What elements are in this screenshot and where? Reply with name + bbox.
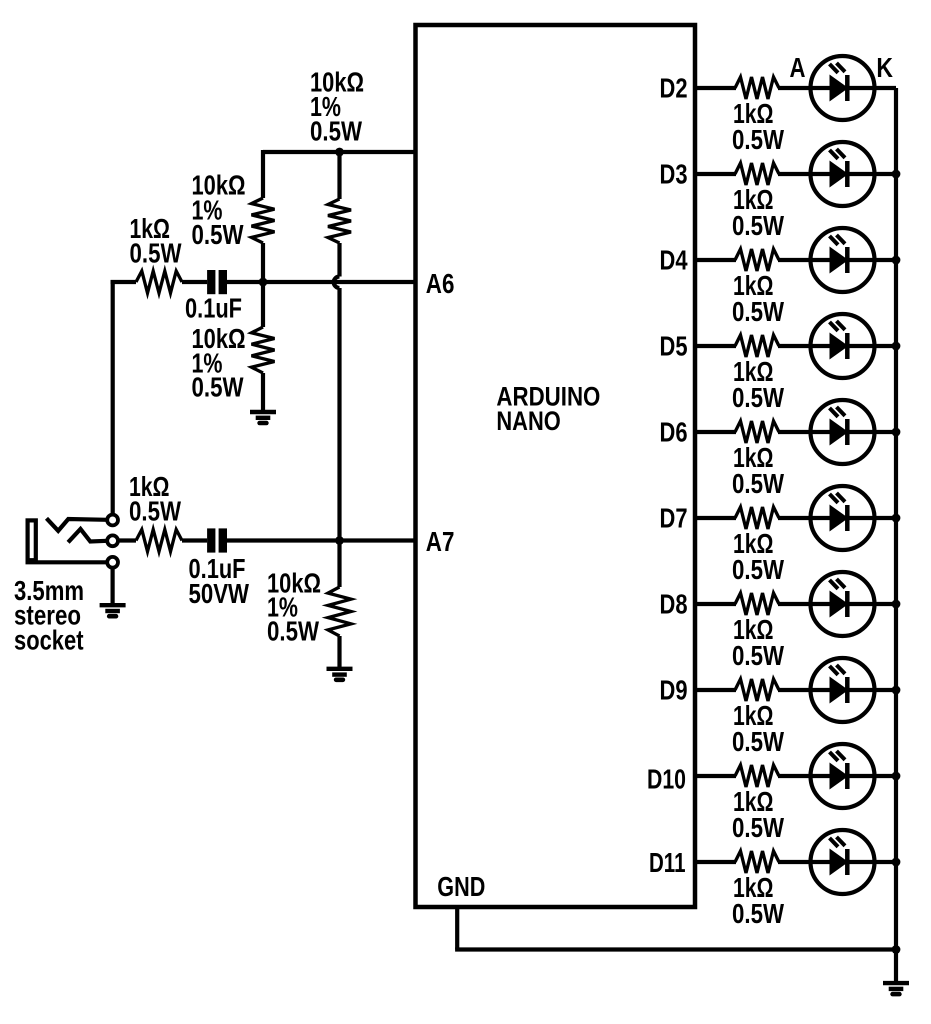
label R below-A6 10k	[192, 323, 246, 403]
wire hop over A6 line	[334, 277, 340, 289]
LED D2 cathode bar	[845, 75, 850, 101]
wire vertical x339 upper	[337, 150, 341, 199]
label resistor D11 1k 0.5W	[732, 872, 784, 929]
LED D6 cathode bar	[845, 419, 850, 445]
LED D11 lamp circle	[811, 830, 875, 894]
wire D7 row	[695, 516, 736, 520]
node junction rail D11	[892, 858, 901, 867]
ground socket sleeve	[100, 605, 126, 616]
svg-text:D11: D11	[649, 847, 686, 878]
svg-text:0.5W: 0.5W	[732, 726, 784, 757]
label resistor D6 1k 0.5W	[732, 442, 784, 499]
resistor 1k A7	[136, 530, 182, 552]
label R top 10k	[310, 67, 364, 147]
connector J1 3.5mm stereo socket body	[28, 520, 36, 560]
resistor 1k D10	[735, 765, 779, 787]
svg-text:A: A	[790, 52, 806, 83]
LED row D7	[660, 486, 901, 585]
wire vertical x339 hop to A7 junction	[337, 288, 341, 541]
wire x263 below A6	[261, 282, 265, 327]
svg-text:0.5W: 0.5W	[310, 116, 362, 147]
wire D8 row	[695, 602, 736, 606]
LED row D6	[660, 400, 901, 499]
label 3.5mm stereo socket	[14, 575, 84, 656]
label ARDUINO NANO	[496, 382, 600, 436]
svg-text:D3: D3	[660, 159, 688, 190]
node junction rail D10	[892, 772, 901, 781]
svg-text:0.5W: 0.5W	[732, 898, 784, 929]
LED row D11	[649, 830, 900, 929]
wire D3 row	[695, 172, 736, 176]
label resistor D10 1k 0.5W	[732, 786, 784, 843]
socket terminal tip	[107, 515, 118, 526]
LED D8 triangle anode	[830, 592, 848, 617]
LED D7 shine marks	[830, 493, 846, 503]
resistor 1k D9	[735, 679, 779, 701]
resistor 1k D11	[735, 851, 779, 873]
LED D7 triangle anode	[830, 506, 848, 531]
svg-text:0.5W: 0.5W	[732, 640, 784, 671]
LED D4 cathode bar	[845, 247, 850, 273]
LED D4 triangle anode	[830, 248, 848, 273]
capacitor 0.1uF 50VW (A7)	[207, 528, 227, 552]
socket terminal sleeve	[107, 557, 118, 568]
svg-text:GND: GND	[437, 871, 485, 902]
wire to ground x263	[261, 373, 265, 410]
LED D4 lamp circle	[811, 228, 875, 292]
svg-text:0.5W: 0.5W	[732, 468, 784, 499]
svg-text:D2: D2	[660, 73, 688, 104]
node junction top wire x=339.5	[335, 148, 344, 157]
label resistor D8 1k 0.5W	[732, 614, 784, 671]
svg-text:0.5W: 0.5W	[192, 372, 244, 403]
LED D6 shine marks	[830, 407, 846, 417]
resistor 10k upper-left	[252, 198, 275, 243]
ground below A6 divider	[250, 412, 276, 423]
wire D5 row	[695, 344, 736, 348]
LED D6 triangle anode	[830, 420, 848, 445]
LED row D5	[660, 314, 901, 413]
wire vertical x339 down to hop	[337, 243, 341, 277]
LED D2 shine marks	[830, 63, 846, 73]
node junction rail D4	[892, 256, 901, 265]
wire bottom to rail	[455, 947, 896, 951]
wire A7 resistor to cap	[182, 538, 207, 542]
svg-text:0.1uF: 0.1uF	[185, 293, 242, 324]
svg-text:0.5W: 0.5W	[732, 296, 784, 327]
svg-text:D10: D10	[647, 764, 686, 795]
resistor 1k D7	[735, 507, 779, 529]
wire cathode rail	[894, 88, 898, 981]
LED D6 lamp circle	[811, 400, 875, 464]
svg-text:50VW: 50VW	[189, 578, 250, 609]
svg-text:0.5W: 0.5W	[192, 219, 244, 250]
LED D5 shine marks	[830, 321, 846, 331]
wire vertical x263 to A6	[261, 243, 265, 282]
LED D2 lamp circle	[811, 56, 875, 120]
wire A6 left segment	[111, 280, 115, 282]
wire top rail to box	[263, 150, 416, 154]
LED D10 shine marks	[830, 751, 846, 761]
node junction rail D7	[892, 514, 901, 523]
socket terminal ring	[107, 535, 118, 546]
svg-text:NANO: NANO	[496, 406, 560, 436]
svg-text:A7: A7	[426, 526, 455, 557]
wire vertical x263 upper	[261, 150, 265, 198]
LED D3 shine marks	[830, 149, 846, 159]
socket tip contact	[47, 518, 108, 531]
label R series 1k (A7)	[129, 471, 181, 527]
wire A7 from socket ring	[117, 538, 136, 542]
label resistor D3 1k 0.5W	[732, 184, 784, 241]
wire x339 below A7	[337, 541, 341, 588]
label resistor D9 1k 0.5W	[732, 700, 784, 757]
Arduino Nano box U1	[416, 25, 696, 907]
wire A7 cap to box	[227, 538, 416, 542]
svg-text:0.5W: 0.5W	[732, 382, 784, 413]
LED row D4	[660, 228, 901, 327]
resistor 1k D4	[735, 249, 779, 271]
wire D4 row	[695, 258, 736, 262]
LED D8 lamp circle	[811, 572, 875, 636]
LED D11 cathode bar	[845, 849, 850, 875]
LED row D9	[660, 658, 901, 757]
wire A6 resistor to cap	[182, 280, 207, 284]
LED D9 triangle anode	[830, 678, 848, 703]
LED row D3	[660, 142, 901, 241]
wire A6 down to socket tip	[111, 282, 115, 515]
LED D7 cathode bar	[845, 505, 850, 531]
wire sleeve to ground	[110, 568, 114, 604]
svg-text:D9: D9	[660, 675, 688, 706]
LED D10 cathode bar	[845, 763, 850, 789]
svg-text:D8: D8	[660, 589, 688, 620]
label resistor D4 1k 0.5W	[732, 270, 784, 327]
capacitor 0.1uF (A6)	[207, 270, 227, 294]
svg-text:0.5W: 0.5W	[732, 210, 784, 241]
LED D10 triangle anode	[830, 764, 848, 789]
LED D9 lamp circle	[811, 658, 875, 722]
LED row D8	[660, 572, 901, 671]
LED row D2	[660, 56, 897, 155]
resistor 1k A6	[136, 271, 182, 293]
resistor 1k D8	[735, 593, 779, 615]
socket ring contact	[68, 529, 107, 542]
label R below-A7 10k	[267, 568, 321, 647]
resistor 1k D6	[735, 421, 779, 443]
LED D3 cathode bar	[845, 161, 850, 187]
ground rail	[883, 983, 909, 994]
svg-text:D4: D4	[660, 245, 688, 276]
svg-text:0.5W: 0.5W	[129, 496, 181, 527]
svg-text:0.5W: 0.5W	[130, 237, 182, 268]
svg-text:0.5W: 0.5W	[732, 812, 784, 843]
LED D7 lamp circle	[811, 486, 875, 550]
node junction A7/x339	[335, 536, 344, 545]
LED D2 triangle anode	[830, 76, 848, 101]
LED D4 shine marks	[830, 235, 846, 245]
svg-text:D5: D5	[660, 331, 688, 362]
svg-text:D6: D6	[660, 417, 688, 448]
svg-text:D7: D7	[660, 503, 688, 534]
label resistor D2 1k 0.5W	[732, 98, 784, 155]
label capacitor 0.1uF 50VW	[189, 553, 250, 609]
node junction rail D8	[892, 600, 901, 609]
label R upper-left 10k	[192, 170, 246, 251]
socket sleeve line	[26, 560, 108, 564]
LED D10 lamp circle	[811, 744, 875, 808]
LED D11 triangle anode	[830, 850, 848, 875]
wire D9 row	[695, 688, 736, 692]
wire to ground x339	[337, 636, 341, 667]
resistor 10k below A6	[252, 327, 275, 373]
LED D3 lamp circle	[811, 142, 875, 206]
label resistor D7 1k 0.5W	[732, 528, 784, 585]
LED D9 cathode bar	[845, 677, 850, 703]
LED D3 triangle anode	[830, 162, 848, 187]
LED D9 shine marks	[830, 665, 846, 675]
svg-text:socket: socket	[14, 625, 84, 656]
resistor 10k below A7	[328, 587, 351, 636]
LED D11 shine marks	[830, 837, 846, 847]
wire D6 row	[695, 430, 736, 434]
svg-text:K: K	[876, 52, 893, 83]
LED D8 cathode bar	[845, 591, 850, 617]
wire GND pin down	[455, 907, 459, 950]
ground below A7 divider	[327, 669, 353, 680]
resistor 1k D5	[735, 335, 779, 357]
node junction rail/bottom	[892, 945, 901, 954]
svg-text:0.5W: 0.5W	[732, 554, 784, 585]
wire D11 row	[695, 860, 736, 864]
LED D8 shine marks	[830, 579, 846, 589]
wire D10 row	[695, 774, 736, 778]
LED row D10	[647, 744, 900, 843]
node junction rail D6	[892, 428, 901, 437]
node junction rail D5	[892, 342, 901, 351]
resistor 10k upper-right	[328, 199, 351, 243]
LED D5 cathode bar	[845, 333, 850, 359]
LED D5 triangle anode	[830, 334, 848, 359]
label R series 1k (A6)	[130, 213, 182, 268]
resistor 1k D2	[735, 77, 779, 99]
wire D2 row	[695, 86, 736, 90]
resistor 1k D3	[735, 163, 779, 185]
svg-text:0.5W: 0.5W	[267, 615, 319, 646]
node junction rail D9	[892, 686, 901, 695]
svg-text:A6: A6	[426, 268, 455, 299]
wire A6 cap to box	[227, 280, 416, 284]
node junction A6/x263	[259, 278, 268, 287]
svg-text:0.5W: 0.5W	[732, 124, 784, 155]
label resistor D5 1k 0.5W	[732, 356, 784, 413]
LED D5 lamp circle	[811, 314, 875, 378]
node junction rail D3	[892, 170, 901, 179]
